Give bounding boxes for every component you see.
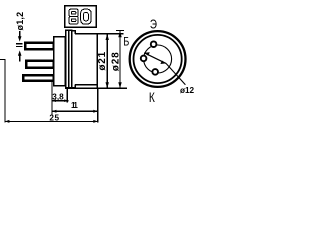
header block (insulator body, side view) <box>54 37 66 86</box>
dimension 11 line with arrows <box>52 110 98 112</box>
flange bottom edge extended right (extension line) <box>65 87 127 89</box>
flange (mounting disc, side view) <box>66 30 72 87</box>
dimension ø12 diagonal line with arrows <box>144 53 166 64</box>
dimension ø21 line <box>106 34 108 89</box>
front view: can circle <box>134 35 182 83</box>
svg-text:3,8: 3,8 <box>52 92 64 101</box>
svg-text:К: К <box>149 90 155 106</box>
can right face extended down (right end of 11 and 25 dims) <box>97 88 99 122</box>
extension line from flange down (right end of 3,8) <box>66 88 68 102</box>
can rim step (bottom) <box>72 85 75 88</box>
extension line left (lead tips) for 25 <box>4 59 6 122</box>
pin base (left) <box>141 56 147 62</box>
can bottom edge <box>75 84 98 86</box>
dimension ø28 line <box>119 31 121 88</box>
ø12 leader line <box>166 63 185 84</box>
front view: outer circle (flange ø28) <box>130 31 186 87</box>
pin emitter (top) <box>151 41 157 47</box>
svg-text:ø1,2: ø1,2 <box>15 12 25 31</box>
can right face <box>96 34 98 89</box>
digit 8 (outline style) <box>69 9 78 17</box>
flange middle line <box>68 30 70 89</box>
svg-text:ø28: ø28 <box>111 52 122 72</box>
lead 1 (emitter lead, side view) <box>25 43 53 49</box>
front view: pin circle ø12 <box>144 45 172 73</box>
dimension 25 line with arrows <box>5 120 98 122</box>
dimension ø1,2 line with arrows <box>19 31 21 39</box>
svg-text:Э: Э <box>150 18 157 32</box>
svg-text:ø12: ø12 <box>180 86 195 95</box>
can rim step (top) <box>72 31 75 34</box>
svg-text:ø21: ø21 <box>97 51 108 71</box>
extension line from lead 3 end down <box>51 82 53 116</box>
lead 2 (base lead, side view) <box>26 61 53 68</box>
ø28 top extension tick <box>116 29 124 31</box>
dimension 3,8 line with arrows <box>52 100 68 102</box>
digit 0 (outline style) <box>81 9 91 24</box>
svg-text:25: 25 <box>49 114 59 123</box>
lead 3 (collector lead, side view) <box>23 75 53 80</box>
marking box "80" <box>65 6 96 28</box>
pin collector (bottom) <box>152 69 158 75</box>
small tick at top of left extension <box>0 58 6 60</box>
can top edge + extension line to dimension lines <box>75 33 124 35</box>
svg-text:Б: Б <box>123 37 129 49</box>
